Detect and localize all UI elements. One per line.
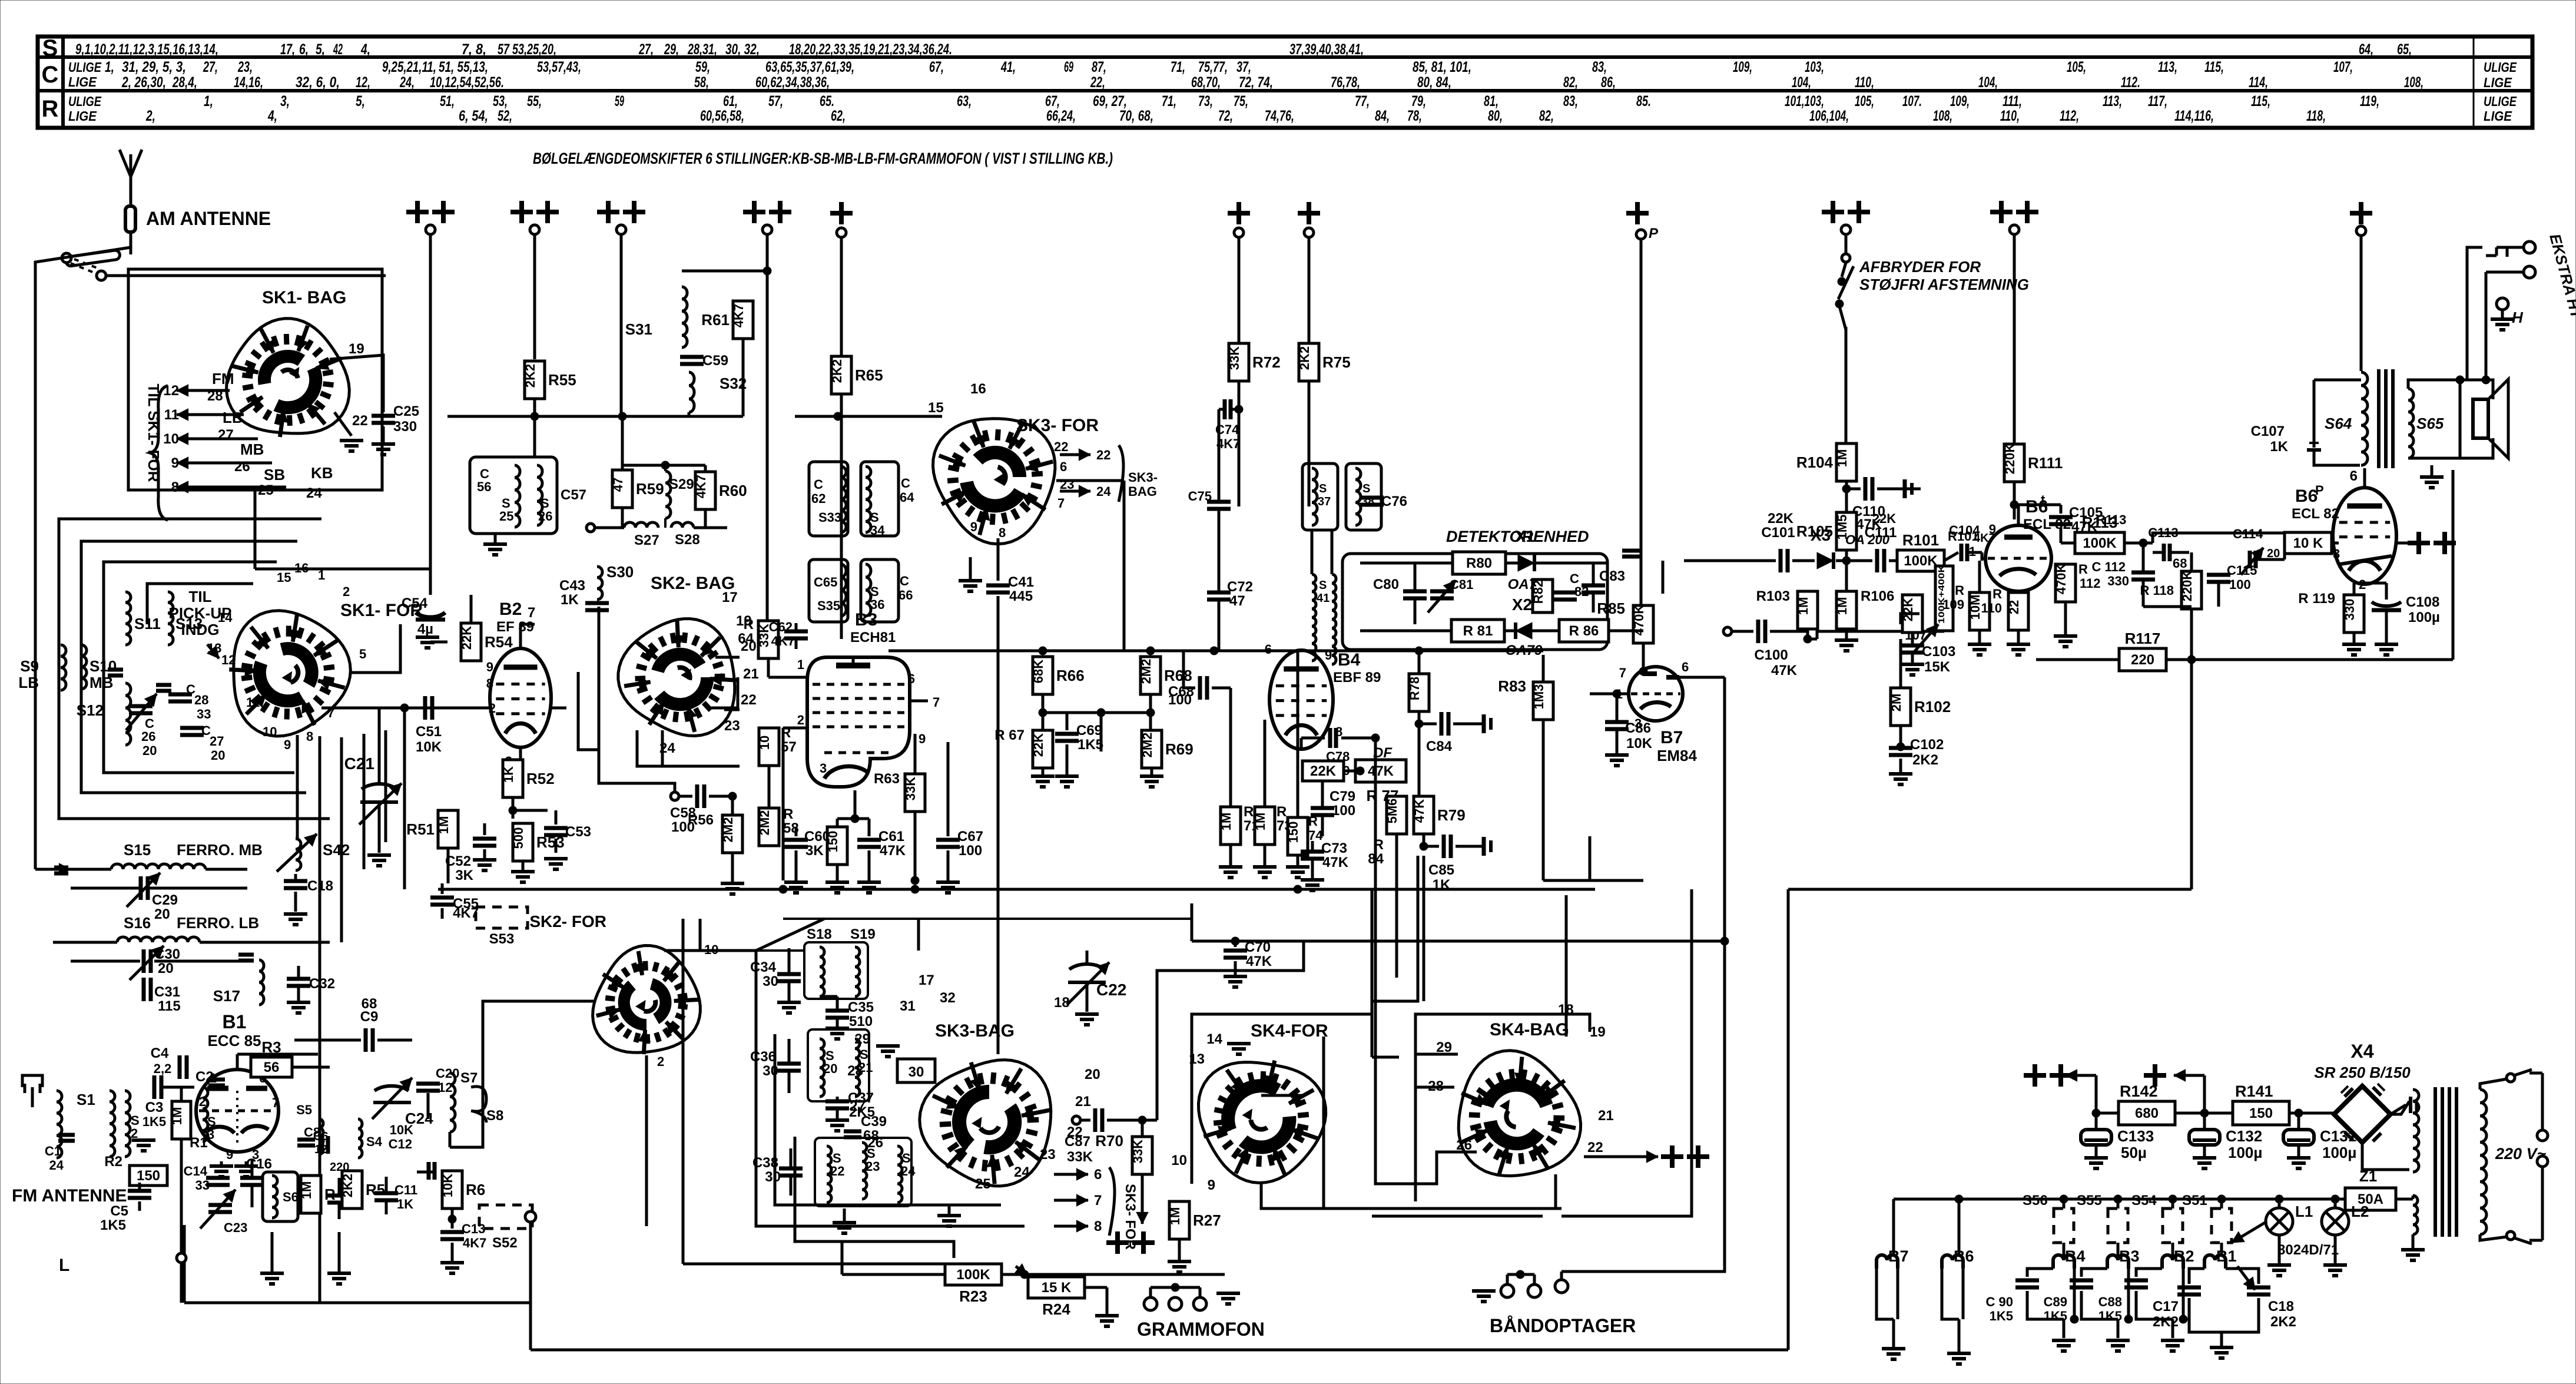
svg-text:150: 150 [2249,1105,2273,1121]
B2 grid wire [412,701,496,716]
svg-text:C8: C8 [304,1125,320,1140]
wire R72 down [1238,381,1241,506]
svg-text:R2: R2 [104,1154,122,1170]
svg-text:220K: 220K [2180,571,2194,602]
svg-text:2: 2 [199,1094,206,1109]
triode B6 ECL82 [1969,522,2064,591]
svg-text:R141: R141 [2235,1082,2273,1100]
capacitor C80 [1373,563,1427,624]
wire top right of SK4 [1261,1057,1399,1095]
vertical B3 out down [947,742,950,836]
label B2 EF89 [496,600,534,635]
svg-text:S31: S31 [625,320,652,338]
FM antenna leads [25,1084,40,1143]
B6 grid wire [1982,557,1985,560]
resistor R53 500 [511,823,565,861]
svg-text:B6: B6 [2295,486,2318,506]
svg-text:C102: C102 [1910,737,1944,753]
plusplus arrow left [2024,1064,2096,1113]
svg-text:C52: C52 [445,853,471,869]
wire 10K to B6P [2332,542,2339,545]
heater B2 S54 C88 [2098,1193,2194,1351]
heater B3 S55 C89 [2044,1193,2140,1351]
svg-text:EBF 89: EBF 89 [1333,670,1381,686]
coil box S18 S19 [804,942,868,999]
svg-text:24: 24 [901,1164,916,1178]
svg-text:2M2: 2M2 [757,810,772,836]
band switch wiring rect 2 [81,541,306,793]
wire into SK3BAG top [664,951,855,1039]
long horizontals above SK3BAG [783,919,1192,951]
wire detector out to volume [1631,561,1684,631]
svg-text:FERRO. LB: FERRO. LB [177,914,259,932]
coil S31 [625,287,687,347]
svg-text:47K: 47K [880,843,906,859]
svg-text:1K: 1K [1433,877,1451,893]
svg-text:B2: B2 [499,600,522,619]
wire C68 sig [1183,651,1195,688]
svg-text:30: 30 [909,1064,924,1080]
svg-text:R69: R69 [1165,740,1193,758]
svg-text:75,: 75, [1234,93,1248,110]
svg-text:16: 16 [294,561,309,575]
svg-text:22: 22 [1096,448,1110,462]
wire R104-R105 [1842,481,1851,512]
capacitor C54 [402,595,445,637]
svg-text:MB: MB [240,441,264,458]
label B6P ECL82 [2292,483,2339,522]
svg-text:R70: R70 [1095,1132,1123,1150]
wire R59 R60 tops [622,415,705,472]
svg-text:27,: 27, [638,41,654,58]
wire under tube B2 right [551,707,566,710]
coil box S22 S23 S24 [815,1138,911,1206]
svg-text:24: 24 [659,740,675,756]
capacitor C20 12 [416,1054,459,1119]
svg-text:R54: R54 [485,633,513,651]
trimmer C29 20 [71,873,247,922]
resistor R63 33K [874,771,925,812]
svg-text:2K2: 2K2 [2270,1314,2296,1330]
svg-text:330: 330 [2107,574,2129,588]
ground L2 [2323,1236,2347,1276]
svg-text:220: 220 [2131,652,2154,668]
capacitor C67 100 [936,742,983,893]
ground under R24 [1095,1303,1119,1326]
svg-text:R 86: R 86 [1569,623,1599,639]
svg-text:33K: 33K [1067,1149,1093,1165]
svg-text:R103: R103 [1756,588,1790,604]
svg-text:R 67: R 67 [994,727,1025,743]
grounds under B1 [210,1161,258,1177]
label B3 ECH81 [850,610,896,645]
svg-text:50µ: 50µ [2121,1144,2147,1161]
wire R51 [447,708,449,883]
resistor R81 [1451,620,1504,642]
svg-text:R 118: R 118 [2140,583,2174,598]
svg-text:S28: S28 [675,532,700,548]
label EKSTRA HT [2546,232,2576,322]
svg-text:1M: 1M [1835,597,1849,615]
svg-text:1M: 1M [1168,1207,1182,1226]
heater B6 [1942,1195,1974,1364]
svg-text:1M: 1M [1219,813,1234,831]
ekstra ht terminals [2504,241,2535,380]
svg-text:100: 100 [1332,803,1355,819]
svg-text:C88: C88 [2098,1294,2122,1309]
wire R105 to diode junction [1842,550,1851,591]
svg-text:S54: S54 [2131,1193,2157,1208]
svg-text:150: 150 [825,831,840,853]
label AM ANTENNE [146,208,271,229]
supply drop ++ B [510,201,559,359]
svg-text:7, 8,: 7, 8, [462,41,486,58]
label SK3-BAG [935,1021,1015,1041]
svg-text:113,: 113, [2158,59,2177,75]
svg-text:2: 2 [343,584,350,599]
svg-text:R: R [1992,587,2002,601]
svg-text:100: 100 [2229,577,2251,592]
svg-text:20: 20 [1085,1067,1100,1082]
svg-text:R27: R27 [1193,1211,1221,1229]
svg-text:C: C [814,477,823,492]
svg-text:C87: C87 [1065,1134,1090,1150]
wires below SK1-FOR [297,708,405,1303]
capacitor C28 33 [168,682,211,721]
svg-text:2,2: 2,2 [154,1061,172,1076]
svg-text:14: 14 [1206,1031,1222,1047]
svg-text:Z1: Z1 [2359,1167,2377,1185]
svg-text:AM ANTENNE: AM ANTENNE [146,208,271,229]
resistor R80 [1453,552,1506,574]
rotary switch SK3-BAG [920,1060,1051,1186]
svg-text:R 81: R 81 [1463,623,1493,639]
capacitor C110 47K [1846,477,1905,532]
wire R78 [1415,651,1423,822]
svg-text:17: 17 [919,972,934,988]
coil S20 [820,1039,837,1097]
B6P right plus [2396,532,2456,554]
B1 pin wires [199,1054,318,1111]
capacitor C102 2K2 [1889,726,1944,784]
svg-text:S: S [1319,579,1327,592]
wire R52 to R53 [509,797,548,819]
svg-text:55,: 55, [527,93,542,110]
wire R107 [1943,561,1946,631]
svg-text:R79: R79 [1437,806,1466,824]
capacitor C78 100 [1301,728,1380,778]
svg-text:112,: 112, [2060,108,2079,124]
svg-text:B6: B6 [1954,1247,1974,1265]
svg-text:R85: R85 [1597,600,1625,617]
vertical 2929 [1720,677,1729,945]
svg-text:C74: C74 [1215,422,1239,437]
svg-text:C17: C17 [2153,1299,2179,1315]
svg-text:63,65,35,37,61,39,: 63,65,35,37,61,39, [765,59,854,75]
svg-text:72, 74,: 72, 74, [1239,74,1273,91]
capacitor C12 10K [386,1123,436,1180]
svg-text:9: 9 [1325,648,1332,663]
ground under C25 [372,444,395,455]
feedback loop right [2452,470,2455,660]
svg-text:L2: L2 [2351,1203,2369,1220]
svg-text:4K7: 4K7 [694,475,708,498]
svg-text:30, 32,: 30, 32, [725,41,760,58]
signal wire SK1 to C51 [321,704,422,712]
svg-text:69: 69 [1064,59,1073,75]
capacitor C84 [1419,712,1491,754]
resistor R64 33K [738,617,778,658]
capacitor C52 3K [445,661,496,883]
svg-text:6: 6 [908,671,915,686]
svg-text:8: 8 [999,525,1006,540]
capacitor C27 20 [156,685,225,763]
IFT1 box [470,457,557,534]
svg-text:R55: R55 [548,371,576,389]
wire R69 down [1140,768,1163,787]
FM antenna symbol [22,1075,42,1139]
resistor R67 22K [994,727,1053,768]
svg-text:1,: 1, [204,93,213,110]
svg-text:28: 28 [194,693,208,707]
svg-text:60,56,58,: 60,56,58, [700,108,744,124]
svg-text:S15: S15 [124,841,151,859]
resistor R101 100K [1897,529,1979,571]
resistor R82 [1531,580,1553,612]
wire R109 [1968,561,1991,655]
wire B3 cath to 150 [825,819,855,893]
svg-text:6,: 6, [299,41,309,58]
label SK1-BAG [262,288,346,307]
heater bus [1894,1196,2413,1199]
rotary switch SK3-FOR [933,419,1055,544]
capacitor C5 1K5 [100,1183,151,1233]
svg-text:84,: 84, [1375,108,1390,124]
svg-text:23: 23 [866,1159,880,1174]
svg-text:101,103,: 101,103, [1785,93,1824,110]
capacitor C37 2K5 [825,1090,875,1131]
capacitor C113 68 [2148,525,2189,571]
detector wires [1360,563,1631,631]
capacitor C53 [544,810,591,853]
svg-text:69, 27,: 69, 27, [1093,93,1127,110]
svg-text:R: R [744,617,754,633]
capacitor C58 100 [670,784,769,835]
trimmer C30 C31 [71,946,247,1014]
svg-text:47K: 47K [1412,799,1427,823]
coil S7 [450,1070,478,1132]
svg-text:LIGE: LIGE [2484,75,2512,90]
wire osc to SK2-FOR [450,1001,594,1147]
wire B2 out [520,624,521,648]
svg-text:C53: C53 [565,824,591,840]
svg-text:2M2: 2M2 [721,817,735,843]
coil S24 [897,1146,916,1203]
grounds under R71 R73 [1219,845,1277,878]
svg-text:30: 30 [765,1169,781,1185]
wire R103 [1803,561,1812,643]
svg-text:22K: 22K [1872,511,1896,526]
svg-text:ECC 85: ECC 85 [207,1032,261,1049]
svg-text:77,: 77, [1355,93,1370,110]
svg-text:C36: C36 [750,1049,776,1065]
svg-text:445: 445 [1009,588,1033,604]
ground SK3-BAG bottom [937,1205,961,1226]
svg-text:C 112: C 112 [2092,559,2126,574]
svg-text:9: 9 [171,455,179,471]
resistor R104 1M [1796,443,1856,481]
svg-text:C13: C13 [462,1221,485,1236]
svg-text:C103: C103 [1922,644,1955,660]
svg-text:53,57,43,: 53,57,43, [537,59,581,75]
ground under C18 [284,914,307,925]
capacitor C103 15K [1901,642,1955,675]
capacitor C18 [284,874,333,912]
IFT2 upper box right [861,462,914,536]
svg-text:C1: C1 [45,1144,61,1158]
capacitor C83 [1582,563,1625,612]
svg-text:10: 10 [1171,1153,1187,1168]
svg-text:28,4,: 28,4, [172,74,197,91]
svg-text:27,: 27, [203,59,218,75]
capacitor C87 33K [1065,1108,1157,1165]
svg-text:510: 510 [849,1014,873,1029]
SK4-BAG arrow to plus [1584,1145,1709,1168]
svg-text:25: 25 [499,509,513,524]
dashed switch S52 [479,1205,536,1251]
IFT2 lower coil S35 [817,564,846,616]
svg-text:1K5: 1K5 [1078,737,1103,753]
svg-text:4K7: 4K7 [731,304,746,327]
svg-text:FM ANTENNE: FM ANTENNE [12,1186,127,1206]
label TIL PICK-UP INDG [169,588,232,658]
capacitor C101 22K [1684,511,1815,572]
coil S11 [125,592,161,645]
svg-text:10: 10 [163,431,179,447]
svg-text:25: 25 [258,482,274,498]
capacitor C55 4K7 [430,883,479,921]
oscillator section C24 [372,1078,433,1127]
svg-text:2K2: 2K2 [340,1174,355,1197]
svg-text:BAG: BAG [1128,484,1157,499]
svg-text:115,: 115, [2204,59,2224,75]
variable capacitor C22 [1067,951,1126,1012]
capacitor C60 3K [784,827,830,893]
IFT2 upper coil S33 [818,466,846,532]
svg-text:100K: 100K [1904,553,1938,569]
AM antenna connector [125,206,135,232]
capacitor C7 12 [327,1178,364,1219]
svg-text:X2: X2 [1512,595,1532,614]
svg-text:85, 81, 101,: 85, 81, 101, [1413,59,1471,75]
label SK3-FOR [1016,416,1099,435]
ground under C53 [544,859,568,869]
svg-text:8024D/71: 8024D/71 [2277,1242,2339,1258]
SK2-FOR pin 10 [657,942,718,1069]
wire to grammofon net [841,1241,844,1274]
svg-text:22: 22 [352,413,368,429]
wire SK1-BAG pin19 to box right [330,355,383,412]
svg-text:17,: 17, [280,41,295,58]
resistor R109 10M [1942,583,1990,630]
wire R54 top [470,595,473,623]
30 box [897,1059,935,1082]
label 8024D/71 [2277,1242,2339,1258]
resistor R73 1M [1253,804,1292,845]
svg-text:64,: 64, [2359,41,2373,58]
svg-text:1: 1 [797,657,804,672]
svg-text:2: 2 [489,701,496,716]
svg-text:R66: R66 [1056,667,1085,684]
svg-text:9: 9 [226,1147,233,1162]
resistor R52 1K [501,760,555,797]
svg-text:BØLGELÆNGDEOMSKIFTER 6 STILLIN: BØLGELÆNGDEOMSKIFTER 6 STILLINGER:KB-SB-… [533,150,1113,167]
svg-text:6: 6 [1265,642,1272,657]
supply drop + G [1298,202,1320,343]
svg-text:52,: 52, [498,108,512,124]
ground under R53 [511,861,535,882]
resistor R72 33K [1227,343,1281,381]
svg-text:R101: R101 [1902,531,1939,549]
svg-text:9: 9 [486,660,493,674]
wire R70 up [1141,1120,1144,1137]
resistor R71 1M [1219,804,1259,845]
rotary switch SK2-BAG [618,619,737,736]
svg-text:R63: R63 [874,771,900,787]
wire C55 to AVC bus [442,889,443,919]
svg-text:X1: X1 [1515,527,1535,545]
wire R108 [1912,561,1913,642]
svg-text:83,: 83, [1563,93,1578,110]
svg-text:100K: 100K [956,1267,990,1283]
supply drop ++ I [1822,201,1870,258]
svg-text:20: 20 [211,748,225,763]
svg-text:5,: 5, [316,41,325,58]
potentiometer R107 [1905,565,1953,653]
coil S6 box [263,1172,299,1221]
svg-text:150: 150 [137,1168,160,1184]
svg-text:R117: R117 [2125,630,2161,647]
svg-text:106,104,: 106,104, [1809,108,1849,124]
labels FM LB MB SB KB [207,370,333,501]
svg-text:ULIGE: ULIGE [2484,94,2517,109]
resistor 10K to grid [2275,532,2340,561]
svg-text:C14: C14 [184,1164,208,1178]
resistor R102 2M [1889,639,1951,726]
interrupter switch [1835,254,1854,330]
ground under R56 [721,853,744,894]
capacitor C4 2.2 [141,1045,212,1079]
svg-text:15: 15 [277,570,291,585]
ground SK4-FOR top [1227,1044,1251,1054]
variable capacitor C21 [344,708,402,853]
label B6 ECL82 [2023,492,2071,532]
svg-text:S19: S19 [850,926,876,942]
svg-text:26: 26 [538,509,552,524]
svg-text:12,: 12, [356,74,370,91]
ekstra ht wires [2482,247,2524,384]
svg-text:3K: 3K [805,843,824,859]
svg-text:C12: C12 [389,1137,412,1151]
svg-text:24: 24 [306,485,322,501]
svg-text:1K5: 1K5 [1990,1309,2013,1323]
svg-text:57 53,25,20,: 57 53,25,20, [498,41,556,58]
svg-text:60,62,34,38,36,: 60,62,34,38,36, [755,74,830,91]
svg-text:2: 2 [797,713,804,727]
wire R84 R79 down [1397,834,1424,1001]
resistor R66 68K [1031,657,1085,694]
coil S5 [296,1102,323,1154]
